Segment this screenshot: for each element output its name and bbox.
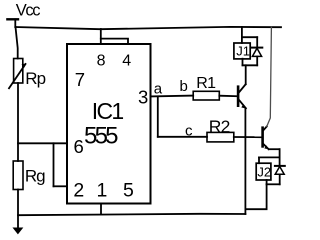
svg-text:R1: R1 bbox=[196, 75, 216, 92]
wire Q2 collector riser to rail bbox=[267, 27, 272, 126]
wire pin3 output bbox=[151, 95, 194, 98]
diode D2 bbox=[275, 166, 285, 184]
svg-text:Rp: Rp bbox=[25, 69, 45, 88]
svg-text:2: 2 bbox=[73, 180, 84, 202]
resistor Rg bbox=[13, 161, 23, 190]
relay J2 box bbox=[256, 163, 271, 180]
relay J1 box bbox=[234, 43, 250, 59]
wire pin8 stub bbox=[100, 29, 102, 44]
wire J2 box bottom stub bbox=[266, 180, 268, 184]
wire J2 top bar bbox=[259, 156, 280, 158]
node a: wire branch down bbox=[157, 96, 159, 136]
wire left rail lower bbox=[17, 190, 19, 230]
ground bbox=[13, 228, 22, 234]
wire J2 bottom bar bbox=[267, 183, 280, 185]
wire J2 box top stub bbox=[258, 157, 260, 163]
resistor Rp (rheostat) bbox=[9, 59, 26, 89]
wire pin4 branch bbox=[101, 39, 128, 44]
svg-text:a: a bbox=[154, 80, 163, 97]
wire pin1 ground stub bbox=[100, 204, 102, 215]
transistor Q1 bbox=[238, 84, 246, 108]
svg-text:b: b bbox=[180, 78, 188, 95]
wire J1 top bar bbox=[242, 36, 257, 38]
svg-text:8: 8 bbox=[97, 53, 106, 70]
svg-text:J2: J2 bbox=[257, 165, 271, 180]
transistor Q2 bbox=[263, 126, 269, 149]
wire J1 bottom bar bbox=[243, 64, 258, 66]
svg-text:Vcc: Vcc bbox=[16, 2, 40, 20]
wire ground link to J2 bbox=[245, 184, 266, 209]
diode D1 bbox=[252, 37, 263, 65]
Vcc power symbol bbox=[7, 19, 18, 27]
svg-text:555: 555 bbox=[84, 123, 119, 150]
svg-text:4: 4 bbox=[122, 53, 131, 70]
wire R1 to Q1 base bbox=[219, 95, 237, 98]
wire R2 to Q2 base bbox=[234, 136, 262, 138]
op-amp U1 body: IC1 555 box bbox=[67, 44, 151, 204]
resistor R2 bbox=[207, 132, 234, 142]
svg-text:7: 7 bbox=[75, 69, 85, 90]
svg-text:c: c bbox=[185, 123, 193, 140]
resistor R1 bbox=[193, 91, 219, 100]
wire Q1 collector riser bbox=[245, 65, 247, 84]
svg-text:R2: R2 bbox=[209, 117, 230, 137]
wire pin6 branch bbox=[18, 142, 67, 144]
wire pin2 branch bbox=[54, 185, 68, 187]
svg-text:5: 5 bbox=[123, 180, 134, 202]
svg-text:Rg: Rg bbox=[25, 167, 45, 186]
wire left rail middle bbox=[17, 83, 19, 161]
wire top rail bbox=[15, 27, 281, 29]
svg-text:6: 6 bbox=[74, 136, 84, 157]
wire left rail upper bbox=[16, 27, 18, 59]
relay J1 feed bbox=[241, 27, 243, 43]
wire pin6-pin2 tie vertical bbox=[53, 143, 55, 186]
wire bottom rail bbox=[18, 214, 245, 215]
svg-text:1: 1 bbox=[97, 180, 108, 202]
wire Q1 emitter drop to ground rail bbox=[244, 108, 246, 214]
wire J2 right branch upper bbox=[279, 149, 281, 166]
svg-text:J1: J1 bbox=[236, 43, 250, 58]
svg-text:IC1: IC1 bbox=[92, 98, 124, 124]
wire c branch bbox=[158, 136, 207, 138]
wire J1 box bottom stub bbox=[242, 59, 244, 66]
wire Q2 emitter bar bbox=[269, 148, 280, 150]
svg-text:3: 3 bbox=[138, 87, 148, 108]
